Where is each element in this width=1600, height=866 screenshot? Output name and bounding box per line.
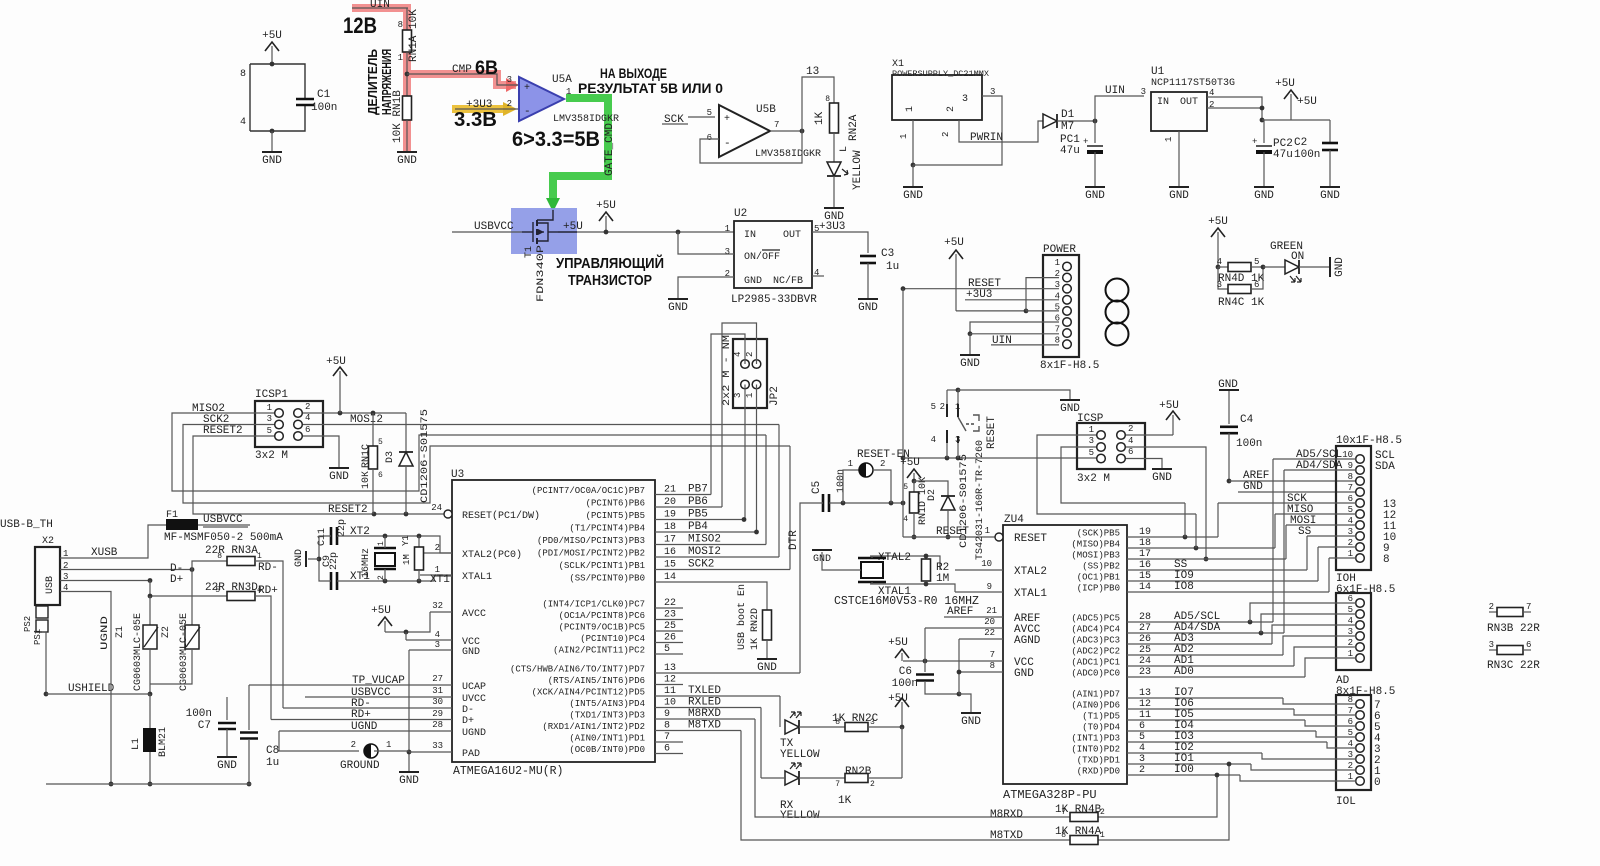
- svg-text:RESET(PC1/DW): RESET(PC1/DW): [462, 510, 540, 522]
- svg-text:(PCINT7/OC0A/OC1C)PB7: (PCINT7/OC0A/OC1C)PB7: [532, 486, 645, 496]
- svg-text:3: 3: [990, 87, 995, 97]
- svg-text:28: 28: [1139, 612, 1151, 623]
- svg-text:PAD: PAD: [462, 749, 480, 760]
- svg-text:M8RXD: M8RXD: [990, 809, 1023, 821]
- junction PB4 JP2: [754, 530, 759, 535]
- wire RN2A to LED: [833, 133, 835, 162]
- junction MISO at PB4: [1194, 514, 1199, 550]
- svg-text:UGND: UGND: [100, 616, 111, 650]
- label +5U at transistor: [563, 221, 583, 233]
- svg-text:CSTCE16M0V53-R0 16MHZ: CSTCE16M0V53-R0 16MHZ: [834, 595, 979, 608]
- svg-text:1: 1: [905, 106, 916, 112]
- svg-text:(SCLK/PCINT1)PB1: (SCLK/PCINT1)PB1: [559, 561, 645, 571]
- svg-text:GND: GND: [1254, 190, 1274, 202]
- label CSTCE16M0V53-R0 16MHZ: [834, 595, 979, 608]
- wire UGND row to test point: [279, 731, 359, 751]
- svg-text:MISO2: MISO2: [688, 534, 721, 546]
- transistor T1 FDN340P mosfet symbol: [522, 210, 577, 244]
- wire POWER pins 6,7 to ground: [968, 322, 1059, 355]
- svg-text:4: 4: [1128, 436, 1133, 446]
- svg-text:5: 5: [664, 644, 670, 655]
- wire AD0 into AD pin1: [1305, 658, 1356, 677]
- svg-text:ON/OFF: ON/OFF: [744, 251, 780, 263]
- wire MISO from ICSP pin1: [1037, 435, 1196, 514]
- pin 7 VCC of ZU4: [903, 650, 1034, 669]
- svg-text:MOSI2: MOSI2: [688, 546, 721, 558]
- crystal Y1 16MHz: [361, 535, 411, 581]
- regulator U2 LP2985: [725, 208, 820, 288]
- svg-text:2: 2: [946, 106, 957, 112]
- svg-text:UGND: UGND: [351, 721, 378, 733]
- svg-text:2: 2: [941, 132, 951, 137]
- wire SCK into pin6: [1218, 503, 1356, 537]
- svg-text:(INT5/AIN3)PD4: (INT5/AIN3)PD4: [569, 699, 645, 709]
- svg-text:5: 5: [215, 586, 220, 595]
- label MOSI2: [350, 414, 383, 426]
- svg-text:GND: GND: [961, 716, 981, 728]
- wire JP2 pin3 to PB5: [744, 385, 746, 520]
- svg-text:ON: ON: [1291, 251, 1304, 263]
- svg-text:TP_VUCAP: TP_VUCAP: [352, 675, 405, 687]
- svg-text:RD+: RD+: [351, 709, 371, 721]
- svg-text:+5U: +5U: [900, 457, 920, 469]
- svg-text:Z2: Z2: [161, 626, 172, 638]
- header IOH 10x1: [1336, 435, 1402, 596]
- label M8TXD bottom: [990, 830, 1023, 842]
- pin 28 UGND of U3: [279, 720, 486, 739]
- svg-text:(TXD)PD1: (TXD)PD1: [1077, 756, 1120, 766]
- label XUSB: [91, 547, 118, 559]
- wire RXLED down: [760, 708, 762, 779]
- capacitor C1: [296, 89, 337, 114]
- svg-text:UIN: UIN: [992, 335, 1012, 347]
- svg-text:GND: GND: [757, 662, 777, 674]
- wire AD3 into AD pin4: [1272, 625, 1356, 644]
- svg-text:(ADC1)PC1: (ADC1)PC1: [1071, 658, 1120, 668]
- wire U5B output up to 13: [802, 77, 834, 131]
- svg-text:(PD0/MISO/PCINT3)PB3: (PD0/MISO/PCINT3)PB3: [537, 536, 645, 546]
- power +5V at U1 output: [1275, 78, 1317, 120]
- resonator CSTCE 16MHz: [822, 552, 886, 584]
- svg-text:7: 7: [835, 780, 840, 789]
- svg-text:22R RN3D: 22R RN3D: [205, 582, 258, 594]
- crystal XTAL1 net: [870, 584, 955, 592]
- junction SCK at PB5: [1183, 503, 1188, 539]
- label T1 rotated: [524, 246, 535, 258]
- svg-text:УПРАВЛЯЮЩИЙ: УПРАВЛЯЮЩИЙ: [556, 254, 664, 272]
- svg-text:SCK2: SCK2: [688, 559, 714, 571]
- wire RESET to POWER pin3: [901, 286, 1059, 291]
- pin 27 UCAP of U3: [249, 674, 486, 693]
- pin 32 AVCC of U3: [430, 601, 486, 620]
- svg-text:UGND: UGND: [462, 728, 486, 739]
- svg-text:USBVCC: USBVCC: [203, 514, 243, 526]
- svg-text:IN: IN: [1157, 97, 1169, 108]
- svg-text:1: 1: [899, 134, 909, 139]
- svg-text:2: 2: [507, 99, 512, 109]
- label GATE_CMD rotated: [604, 123, 616, 176]
- svg-text:5: 5: [707, 108, 712, 118]
- svg-text:18: 18: [1139, 538, 1151, 549]
- svg-text:UCAP: UCAP: [462, 682, 486, 693]
- svg-text:8x1F-H8.5: 8x1F-H8.5: [1336, 686, 1395, 698]
- svg-text:CD1206-S01575: CD1206-S01575: [959, 454, 970, 548]
- ic U3 ATMEGA16U2 body: [451, 469, 655, 778]
- svg-text:M8RXD: M8RXD: [688, 708, 721, 720]
- svg-text:U5A: U5A: [552, 74, 572, 86]
- svg-text:(SS/PCINT0)PB0: (SS/PCINT0)PB0: [569, 574, 645, 584]
- resistor RN4B: [1055, 804, 1105, 822]
- svg-text:+5U: +5U: [1297, 96, 1317, 108]
- svg-text:8: 8: [1348, 472, 1353, 482]
- wire SCK to op-amp: [688, 116, 715, 118]
- svg-text:(PDI/MOSI/PCINT2)PB2: (PDI/MOSI/PCINT2)PB2: [537, 549, 645, 559]
- svg-text:7: 7: [1526, 602, 1531, 612]
- ground below ZU4 left: [961, 713, 981, 728]
- svg-text:BLM21: BLM21: [158, 727, 169, 757]
- svg-text:PB5: PB5: [688, 509, 708, 521]
- svg-text:TXLED: TXLED: [688, 685, 721, 697]
- svg-text:3x2 M: 3x2 M: [1077, 473, 1110, 485]
- ground below POWER header: [960, 355, 980, 370]
- svg-text:C1: C1: [317, 89, 331, 101]
- svg-text:USHIELD: USHIELD: [68, 683, 115, 695]
- svg-text:Z1: Z1: [115, 626, 126, 638]
- label VIN top: [370, 0, 390, 11]
- svg-text:(T1)PD5: (T1)PD5: [1082, 712, 1120, 722]
- svg-text:GND: GND: [397, 155, 417, 167]
- wire SCK2 from ICSP1 pin3: [183, 425, 790, 504]
- power +5V at ZU4 VCC: [888, 637, 927, 663]
- svg-text:+5U: +5U: [326, 356, 346, 368]
- label RD-: [258, 562, 278, 574]
- svg-text:M8TXD: M8TXD: [990, 830, 1023, 842]
- power +5V at RN2C: [888, 693, 909, 729]
- svg-text:TS42031-160R-TR-7260: TS42031-160R-TR-7260: [975, 440, 986, 560]
- svg-text:GND: GND: [1169, 190, 1189, 202]
- wire X1 pin2 PWRIN: [941, 120, 1045, 142]
- svg-text:CG0603MLC-05E: CG0603MLC-05E: [179, 613, 190, 691]
- svg-text:GND: GND: [858, 302, 878, 314]
- diode D1 M7: [1043, 109, 1075, 133]
- svg-text:RESET2: RESET2: [328, 504, 368, 516]
- connector X2 USB-B: [0, 519, 68, 605]
- svg-text:(ADC0)PC0: (ADC0)PC0: [1071, 669, 1120, 679]
- resistor R2 1M: [922, 554, 950, 587]
- svg-text:1: 1: [386, 740, 391, 750]
- svg-text:(AIN2/PCINT11)PC2: (AIN2/PCINT11)PC2: [553, 646, 645, 656]
- svg-text:8x1F-H8.5: 8x1F-H8.5: [1040, 360, 1099, 372]
- svg-text:14: 14: [1139, 582, 1151, 593]
- label XT2: [350, 526, 370, 538]
- svg-text:RD+: RD+: [258, 585, 278, 597]
- wire IO4 into IOL pin5: [1316, 731, 1356, 737]
- svg-text:UIN: UIN: [370, 0, 390, 11]
- svg-text:10x1F-H8.5: 10x1F-H8.5: [1336, 435, 1402, 447]
- wire D1 to VIN node: [1057, 119, 1097, 124]
- svg-text:(PCINT10)PC4: (PCINT10)PC4: [580, 634, 645, 644]
- label FDN340P rotated: [536, 245, 547, 302]
- wire SCK from ICSP pin3: [1061, 447, 1185, 503]
- label SCK at header: [1287, 493, 1307, 505]
- svg-text:1: 1: [566, 87, 571, 97]
- capacitor C4: [1220, 391, 1262, 481]
- svg-text:GND: GND: [1320, 190, 1340, 202]
- svg-text:4: 4: [1217, 257, 1222, 267]
- power +5V reset pullup: [900, 457, 921, 483]
- pin 2 XTAL2 of U3: [420, 543, 522, 561]
- resistor RN4C: [1217, 265, 1266, 309]
- svg-text:4: 4: [1139, 743, 1145, 754]
- led ON green: [1263, 241, 1304, 282]
- svg-text:XTAL1: XTAL1: [462, 572, 492, 583]
- pin 29 D+ of U3: [271, 709, 474, 727]
- svg-text:8: 8: [1383, 554, 1390, 566]
- labels SCL SDA: [1375, 450, 1395, 473]
- svg-text:GND: GND: [1243, 481, 1263, 493]
- ground below C3: [858, 299, 878, 314]
- svg-text:AVCC: AVCC: [462, 609, 486, 620]
- mounting holes 3 circles: [1106, 279, 1129, 346]
- svg-text:3: 3: [267, 414, 272, 424]
- svg-text:LMV358IDGKR: LMV358IDGKR: [755, 149, 821, 160]
- wire VIN down to divider: [406, 8, 408, 30]
- svg-text:RN3B 22R: RN3B 22R: [1487, 623, 1540, 635]
- wire +3V3 to POWER pin4: [965, 299, 1059, 301]
- resistor RN3D: [148, 581, 262, 601]
- svg-text:10: 10: [981, 559, 992, 569]
- wire VIN node up to U1: [1095, 96, 1144, 121]
- svg-text:27: 27: [432, 674, 443, 684]
- svg-text:RN3C 22R: RN3C 22R: [1487, 660, 1540, 672]
- svg-text:31: 31: [432, 686, 443, 696]
- svg-text:2: 2: [1100, 808, 1105, 817]
- svg-text:+5U: +5U: [944, 237, 964, 249]
- svg-text:IO8: IO8: [1174, 581, 1194, 593]
- ground below divider: [397, 152, 417, 167]
- ground below PC1: [1085, 187, 1105, 202]
- wire JP2 pin2 to PB6: [722, 323, 757, 507]
- svg-text:1: 1: [1055, 258, 1060, 268]
- label RD+: [258, 585, 278, 597]
- power +5V at U3 VCC: [371, 605, 430, 640]
- pads PS2 PS1: [23, 606, 48, 696]
- svg-text:23: 23: [664, 610, 676, 621]
- pins PD7-PD0 of ZU4 with wires: [1071, 687, 1327, 777]
- capacitor C9: [322, 552, 340, 590]
- svg-text:12: 12: [664, 675, 676, 686]
- svg-text:3: 3: [1217, 280, 1222, 290]
- svg-text:C3: C3: [881, 248, 894, 260]
- svg-text:CD1206-S01575: CD1206-S01575: [420, 409, 431, 503]
- svg-text:4: 4: [931, 435, 936, 445]
- ground below U3 PAD: [399, 772, 419, 787]
- svg-text:RESET2: RESET2: [203, 425, 243, 437]
- ground below C1 block: [262, 129, 282, 167]
- wire JP2 pin4 to PB7: [711, 334, 745, 495]
- wire LED to ground: [833, 176, 835, 208]
- wire DTR to C5: [821, 502, 823, 504]
- svg-text:-: -: [524, 106, 531, 118]
- power +5V to POWER pins 2 and 5: [944, 237, 1059, 313]
- ground below C7: [217, 757, 237, 772]
- pins PD7-PD0 of U3 with wires: [510, 663, 800, 755]
- pins PC7-PC2 of U3: [542, 598, 683, 656]
- svg-text:+5U: +5U: [563, 221, 583, 233]
- resistor RN3A: [192, 545, 262, 570]
- labels digital 13-8: [1383, 499, 1397, 566]
- svg-text:8: 8: [825, 95, 830, 104]
- svg-text:20: 20: [984, 617, 995, 627]
- label TP_VUCAP: [352, 675, 405, 687]
- wire U2 pin2 to ground: [678, 277, 734, 299]
- label XTAL1: [878, 586, 911, 598]
- wire XUSB to fuse: [60, 525, 166, 558]
- svg-text:2: 2: [1489, 602, 1494, 612]
- svg-text:17: 17: [664, 535, 676, 546]
- svg-text:3: 3: [1489, 640, 1494, 650]
- wire RN1B to ground: [406, 120, 408, 152]
- op-amp U5A: [507, 74, 619, 125]
- svg-text:D1: D1: [1061, 109, 1075, 121]
- wire DTR from U3 PD7: [800, 503, 821, 673]
- svg-text:D2: D2: [927, 489, 938, 501]
- label +3U3 at POWER: [966, 289, 992, 301]
- svg-text:(ADC2)PC2: (ADC2)PC2: [1071, 647, 1120, 657]
- svg-text:RN1A 10K: RN1A 10K: [408, 9, 420, 62]
- testpoint GROUND: [340, 740, 391, 772]
- ground below C2: [1320, 187, 1340, 202]
- svg-text:100n: 100n: [1236, 438, 1262, 450]
- svg-text:GROUND: GROUND: [340, 760, 380, 772]
- ground below PC2: [1254, 187, 1274, 202]
- wire RD- net: [255, 561, 283, 708]
- power +5V at ICSP1 pin2: [303, 356, 406, 415]
- svg-text:AD0: AD0: [1174, 666, 1194, 678]
- label RESET2 at U3: [328, 504, 368, 516]
- svg-text:1: 1: [1164, 137, 1174, 142]
- svg-text:CMP: CMP: [452, 64, 472, 76]
- label SCK at U5B: [662, 114, 688, 126]
- svg-text:100n: 100n: [1294, 149, 1320, 161]
- pins PC5-PC0 of ZU4 with wires: [1071, 611, 1305, 679]
- connector X1 power jack: [892, 59, 989, 120]
- label CD1206-S01575 for D2: [959, 454, 970, 548]
- svg-text:3: 3: [1141, 87, 1146, 97]
- svg-text:U1: U1: [1151, 66, 1165, 78]
- capacitor PC2: [1252, 120, 1293, 187]
- label RESET-EN: [857, 449, 910, 461]
- svg-text:GND: GND: [399, 775, 419, 787]
- svg-text:MOSI2: MOSI2: [350, 414, 383, 426]
- svg-text:(OC1A/PCINT8)PC6: (OC1A/PCINT8)PC6: [559, 611, 645, 621]
- svg-text:(ADC4)PC4: (ADC4)PC4: [1071, 625, 1120, 635]
- wire IO9 into pin2: [1318, 547, 1356, 581]
- svg-text:3: 3: [435, 640, 440, 650]
- wire MISO2 down to PB3: [765, 435, 767, 545]
- label 3.3V bold: [454, 109, 497, 131]
- svg-text:GND: GND: [668, 302, 688, 314]
- svg-text:YELLOW: YELLOW: [780, 749, 820, 761]
- wire C5 right to reset net: [829, 501, 905, 506]
- svg-text:(MISO)PB4: (MISO)PB4: [1071, 540, 1120, 550]
- svg-text:+5U: +5U: [888, 693, 908, 705]
- wire GND net to header pin7: [1238, 491, 1356, 493]
- svg-text:6x1F-H8.5: 6x1F-H8.5: [1336, 584, 1395, 596]
- capacitor C8: [240, 685, 279, 786]
- svg-text:D+: D+: [462, 716, 474, 727]
- svg-text:3: 3: [733, 393, 743, 398]
- svg-text:RN2B: RN2B: [845, 766, 872, 778]
- svg-text:4: 4: [305, 413, 310, 423]
- resistor RN1A: [398, 9, 420, 63]
- resistor RN3B: [1487, 602, 1540, 635]
- inductor L1 BLM21: [131, 694, 169, 786]
- pin 21 AREF of ZU4: [944, 606, 1040, 625]
- svg-text:YELLOW: YELLOW: [780, 810, 820, 822]
- wire USBVCC from fuse: [198, 524, 250, 526]
- ground right of green LED: [1330, 257, 1346, 277]
- svg-text:U5B: U5B: [756, 104, 776, 116]
- svg-text:4: 4: [435, 630, 440, 640]
- svg-text:2: 2: [435, 543, 440, 553]
- svg-text:ATMEGA328P-PU: ATMEGA328P-PU: [1003, 788, 1097, 802]
- svg-text:(OC1)PB1: (OC1)PB1: [1077, 573, 1120, 583]
- svg-text:18: 18: [664, 522, 676, 533]
- wire U5B output and feedback: [700, 129, 804, 163]
- pin 1 RESET of ZU4: [985, 526, 1048, 545]
- wire MOSI from ICSP pin4: [1126, 447, 1208, 561]
- label MISO2: [192, 403, 225, 415]
- label DTR rotated: [788, 530, 800, 550]
- svg-text:0: 0: [1374, 777, 1381, 789]
- capacitor C11: [317, 519, 348, 546]
- svg-text:UIN: UIN: [1105, 85, 1125, 97]
- svg-text:27: 27: [1139, 623, 1151, 634]
- svg-text:Y1: Y1: [401, 535, 411, 546]
- wire IO3 into IOL pin4: [1327, 742, 1356, 748]
- svg-text:РЕЗУЛЬТАТ 5В ИЛИ 0: РЕЗУЛЬТАТ 5В ИЛИ 0: [578, 80, 723, 96]
- pins PB5-PB0 of ZU4 with wires: [1071, 527, 1329, 594]
- capacitor C7: [186, 697, 236, 757]
- wire AD1 into AD pin2: [1294, 647, 1356, 666]
- stub U2 pin4: [812, 275, 824, 277]
- label RESET at POWER: [968, 278, 1001, 290]
- wire RD+ net: [255, 596, 271, 720]
- header ICSP1 3x2: [255, 389, 323, 462]
- svg-text:U3: U3: [451, 469, 464, 481]
- wire RN2D to ground: [766, 640, 768, 659]
- svg-text:IN: IN: [744, 230, 756, 241]
- label output annotation (НА ВЫХОДЕ РЕЗУЛЬТАТ 5В ИЛИ 0): [578, 65, 723, 96]
- svg-text:1: 1: [267, 403, 272, 413]
- svg-text:USB-B_TH: USB-B_TH: [0, 519, 53, 531]
- svg-text:FDN340P: FDN340P: [536, 245, 547, 302]
- svg-text:RN1C: RN1C: [361, 444, 372, 468]
- svg-text:4: 4: [903, 515, 908, 524]
- wire XT2 net: [337, 534, 452, 553]
- wire MOSI2 from ICSP1 pin4: [303, 424, 779, 426]
- svg-text:3x2 M: 3x2 M: [255, 450, 288, 462]
- svg-text:RD-: RD-: [258, 562, 278, 574]
- svg-text:1: 1: [848, 459, 853, 469]
- svg-text:U2: U2: [734, 208, 747, 220]
- svg-text:2: 2: [1128, 424, 1133, 434]
- resistor R1 1M beside crystal: [402, 536, 424, 581]
- svg-text:2: 2: [745, 352, 755, 357]
- svg-text:(CTS/HWB/AIN6/TO/INT7)PD7: (CTS/HWB/AIN6/TO/INT7)PD7: [510, 665, 645, 675]
- label +3U3 at U2: [819, 221, 845, 233]
